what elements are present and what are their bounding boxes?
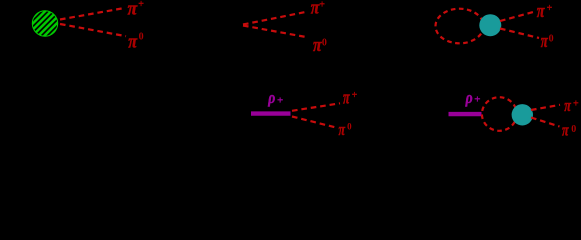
label pi0 (panel 2)	[313, 35, 327, 56]
label pi0 (panel 1)	[128, 31, 143, 52]
svg-text:0: 0	[571, 124, 576, 135]
svg-text:+: +	[474, 94, 480, 106]
wire: dashed pion line to pi0 (panel 1 lower)	[60, 24, 126, 36]
wire: dashed pion line to pi0 (panel 4 lower)	[292, 117, 336, 128]
svg-text:π: π	[564, 96, 571, 115]
label pi+ (panel 2)	[311, 0, 326, 19]
svg-text:+: +	[138, 0, 144, 10]
label pi0 (panel 4)	[339, 120, 353, 139]
svg-text:+: +	[573, 99, 579, 110]
label rho+ (panel 5)	[465, 88, 481, 107]
label rho+ (panel 4)	[267, 88, 283, 107]
svg-text:π: π	[128, 31, 137, 52]
svg-text:π: π	[339, 120, 346, 139]
wire: dashed pion line to pi+ (panel 1 upper)	[60, 8, 125, 20]
wire: dashed pion line to pi0 (panel 5 lower)	[531, 118, 560, 127]
wire: dashed pion line to pi+ (panel 3 upper)	[500, 12, 535, 22]
svg-text:π: π	[537, 1, 545, 22]
rho meson line (panel 5, thick purple)	[449, 112, 482, 116]
svg-text:+: +	[352, 90, 358, 101]
svg-text:+: +	[547, 3, 553, 14]
label pi+ (panel 3)	[537, 1, 553, 22]
wire: dashed pion line to pi+ (panel 5 upper)	[531, 105, 560, 110]
svg-text:π: π	[541, 31, 548, 52]
pion loop (panel 5, dashed ellipse)	[482, 97, 517, 131]
svg-text:ρ: ρ	[267, 88, 275, 107]
B meson blob (green hatched circle)	[32, 11, 57, 36]
svg-text:π: π	[128, 0, 138, 19]
wire: dashed pion line to pi+ (panel 2 upper)	[243, 12, 308, 25]
svg-text:0: 0	[347, 122, 352, 132]
svg-text:0: 0	[549, 33, 554, 44]
svg-text:+: +	[277, 95, 283, 107]
svg-text:0: 0	[139, 32, 144, 43]
wire: dashed pion line to pi0 (panel 3 lower)	[500, 29, 539, 39]
wire: dashed pion line to pi0 (panel 2 lower)	[243, 26, 307, 38]
rho meson line (panel 4, thick purple)	[251, 111, 291, 115]
pion loop (panel 3, dashed ellipse)	[436, 9, 484, 44]
svg-text:0: 0	[322, 38, 327, 49]
label pi0 (panel 3)	[541, 31, 554, 52]
label pi0 (panel 5)	[562, 121, 576, 140]
svg-text:π: π	[562, 121, 569, 140]
wire: dashed pion line to pi+ (panel 4 upper)	[292, 103, 340, 111]
svg-text:+: +	[319, 0, 325, 11]
svg-text:ρ: ρ	[465, 88, 473, 107]
label pi+ (panel 5)	[564, 96, 579, 115]
svg-text:π: π	[313, 35, 322, 56]
svg-text:π: π	[343, 88, 350, 109]
teal rescattering vertex (panel 3)	[479, 14, 501, 36]
teal rescattering vertex (panel 5)	[512, 104, 533, 125]
label pi+ (panel 4)	[343, 88, 358, 109]
label pi+ (panel 1)	[128, 0, 145, 19]
